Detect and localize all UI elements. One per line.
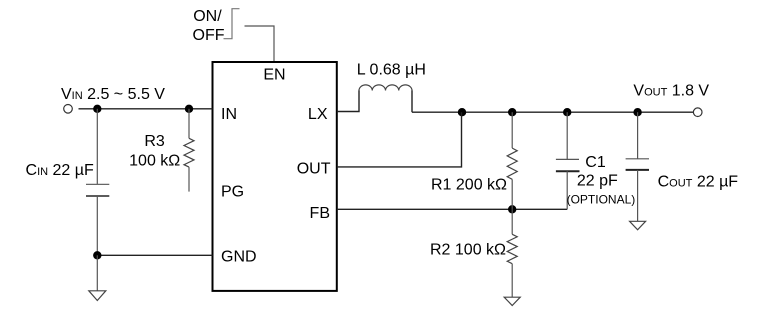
svg-text:R2 100 kΩ: R2 100 kΩ (430, 241, 506, 258)
wire R2 top (511, 209, 513, 234)
capacitor COUT (626, 159, 649, 170)
node VIN-CIN junction (93, 105, 101, 113)
svg-text:PG: PG (221, 183, 244, 200)
wire FB net (337, 208, 567, 210)
regulator U1 (213, 62, 337, 291)
svg-text:VOUT 1.8 V: VOUT 1.8 V (633, 82, 709, 99)
wire CIN bottom (96, 196, 98, 255)
svg-text:100 kΩ: 100 kΩ (129, 152, 180, 169)
svg-text:EN: EN (263, 67, 285, 84)
svg-text:IN: IN (221, 106, 237, 123)
svg-text:OFF: OFF (193, 27, 225, 44)
svg-text:C1: C1 (585, 154, 606, 171)
node COUT junction (633, 108, 641, 116)
wire R1 top (511, 112, 513, 148)
svg-text:OUT: OUT (297, 160, 331, 177)
wire GND rail (97, 254, 212, 256)
wire VOUT rail (412, 111, 693, 113)
svg-text:GND: GND (221, 249, 257, 266)
wire OUT net (337, 112, 462, 167)
wire C1 top (566, 112, 568, 159)
svg-text:R3: R3 (144, 133, 165, 150)
resistor R2 (507, 234, 517, 263)
node VIN-R3 junction (185, 105, 193, 113)
terminal VIN (64, 105, 73, 114)
wire CIN top (96, 109, 98, 185)
resistor R1 (507, 148, 517, 179)
node GND junction (93, 251, 101, 259)
wire EN net (245, 26, 275, 62)
wire LX stub (337, 91, 359, 112)
wire VIN rail (79, 108, 213, 110)
capacitor C1 (556, 159, 580, 171)
svg-text:LX: LX (308, 106, 328, 123)
wire R2 bottom (511, 264, 513, 298)
svg-text:(OPTIONAL): (OPTIONAL) (567, 192, 636, 206)
svg-text:L 0.68 µH: L 0.68 µH (357, 62, 426, 79)
ground (R2) (504, 297, 520, 305)
node OUT junction (458, 108, 466, 116)
inductor L (359, 85, 412, 91)
node FB junction (508, 205, 516, 213)
node C1 top junction (563, 108, 571, 116)
wire L right leg (411, 91, 413, 113)
svg-text:R1 200 kΩ: R1 200 kΩ (431, 177, 507, 194)
wire R3 bottom stub (188, 167, 190, 192)
svg-text:ON/: ON/ (193, 8, 222, 25)
resistor R3 (184, 138, 194, 167)
terminal VOUT (693, 108, 702, 117)
ground (COUT) (630, 221, 646, 230)
wire COUT top (637, 112, 639, 159)
capacitor CIN (86, 184, 109, 196)
wire C1 bottom (566, 171, 568, 209)
wire R1 bottom (511, 179, 513, 209)
ground (input) (89, 291, 106, 301)
svg-text:VIN 2.5 ~ 5.5 V: VIN 2.5 ~ 5.5 V (61, 86, 165, 103)
svg-text:22 pF: 22 pF (577, 172, 618, 189)
svg-text:COUT 22 µF: COUT 22 µF (658, 173, 739, 190)
svg-text:FB: FB (310, 205, 330, 222)
wire to ground (96, 255, 98, 290)
wire COUT bottom (637, 170, 639, 221)
node R1 top junction (508, 108, 516, 116)
wire R3 top (188, 109, 190, 139)
svg-text:CIN 22 µF: CIN 22 µF (26, 162, 94, 179)
rising-edge symbol (224, 9, 240, 39)
